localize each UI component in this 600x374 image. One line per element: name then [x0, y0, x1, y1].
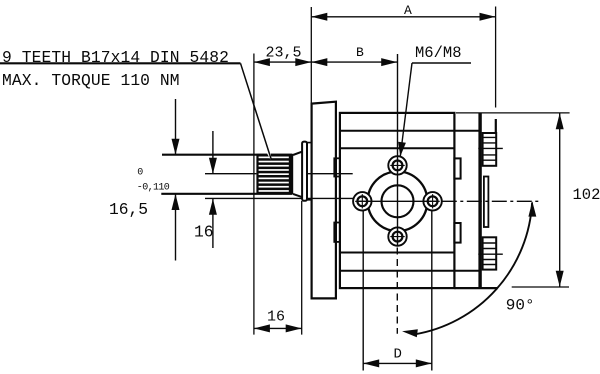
- svg-text:B: B: [356, 45, 364, 60]
- svg-text:D: D: [394, 347, 402, 363]
- svg-text:MAX. TORQUE 110 NM: MAX. TORQUE 110 NM: [2, 71, 180, 90]
- svg-text:90°: 90°: [506, 296, 535, 314]
- svg-text:23,5: 23,5: [266, 45, 302, 62]
- svg-text:16: 16: [194, 223, 214, 242]
- svg-text:16: 16: [267, 309, 285, 326]
- svg-text:9 TEETH B17x14 DIN 5482: 9 TEETH B17x14 DIN 5482: [2, 48, 229, 67]
- svg-text:16,5: 16,5: [109, 200, 148, 219]
- svg-text:102: 102: [573, 186, 600, 204]
- svg-text:M6/M8: M6/M8: [415, 44, 462, 62]
- svg-text:-0,110: -0,110: [137, 183, 170, 194]
- svg-text:0: 0: [137, 167, 143, 178]
- svg-text:A: A: [404, 3, 412, 18]
